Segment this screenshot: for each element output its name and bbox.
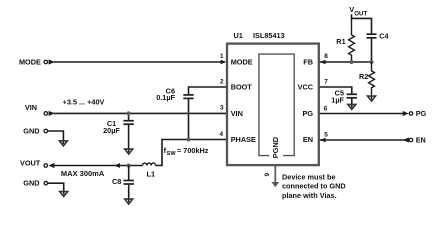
wire BOOT to C6	[189, 87, 227, 94]
svg-text:EN: EN	[303, 135, 313, 144]
svg-text:1µF: 1µF	[331, 95, 344, 104]
note text	[282, 172, 346, 200]
wire GND lower	[48, 183, 64, 194]
svg-text:3: 3	[220, 105, 224, 112]
svg-text:VOUT: VOUT	[20, 159, 41, 168]
resistor R1	[349, 18, 355, 62]
svg-text:R1: R1	[336, 37, 345, 46]
svg-text:VCC: VCC	[298, 83, 314, 92]
svg-text:EN: EN	[416, 136, 426, 145]
capacitor C6	[183, 95, 193, 140]
svg-text:Device must be: Device must be	[282, 172, 336, 181]
wire FB line	[320, 61, 372, 63]
terminal VOUT	[20, 159, 54, 169]
node R1/FB junction	[349, 60, 353, 64]
node C6/PHASE junction	[186, 137, 190, 141]
op-amp U1 ISL85413 outer box	[227, 44, 319, 166]
svg-text:MODE: MODE	[231, 58, 253, 67]
svg-text:U1: U1	[234, 31, 243, 40]
wire L1 to PHASE	[156, 140, 227, 166]
terminal VIN	[25, 103, 55, 116]
svg-text:GND: GND	[23, 127, 39, 136]
U1 inner box	[259, 54, 294, 156]
capacitor C8	[124, 166, 134, 203]
ground symbol C8	[125, 199, 133, 204]
ground symbol upper	[59, 141, 67, 146]
wire GND upper	[48, 131, 63, 144]
ground symbol R2	[368, 96, 376, 101]
label fSW = 700kHz	[164, 146, 209, 157]
inductor L1	[143, 163, 156, 166]
capacitor C5	[347, 94, 357, 107]
svg-text:VIN: VIN	[25, 103, 37, 112]
node VOUT/C8/L1 junction	[127, 163, 131, 167]
svg-text:9: 9	[264, 173, 271, 177]
wire VOUT line	[54, 165, 143, 167]
svg-text:2: 2	[220, 78, 224, 85]
terminal GND upper	[23, 127, 47, 136]
svg-text:8: 8	[324, 53, 328, 60]
svg-text:6: 6	[324, 105, 328, 112]
wire MODE to pin 1	[54, 61, 222, 63]
svg-text:MODE: MODE	[19, 58, 41, 67]
svg-text:OUT: OUT	[354, 10, 367, 17]
svg-text:connected to GND: connected to GND	[282, 182, 346, 191]
svg-text:PG: PG	[302, 109, 313, 118]
svg-text:PGND: PGND	[271, 136, 280, 158]
svg-text:1: 1	[220, 53, 224, 60]
svg-text:0.1µF: 0.1µF	[156, 93, 175, 102]
ground symbol C5	[348, 104, 356, 109]
svg-text:20µF: 20µF	[103, 126, 120, 135]
svg-text:PHASE: PHASE	[231, 135, 256, 144]
arrowhead into EN	[320, 138, 326, 143]
ground symbol C1	[125, 149, 133, 154]
node C1/VIN junction	[127, 111, 131, 115]
arrowhead into FB	[320, 60, 326, 65]
svg-text:VIN: VIN	[231, 109, 243, 118]
terminal MODE	[19, 58, 55, 67]
svg-text:R2: R2	[359, 72, 368, 81]
svg-text:BOOT: BOOT	[231, 83, 253, 92]
svg-text:plane with Vias.: plane with Vias.	[282, 191, 337, 200]
arrow on VOUT line	[114, 163, 120, 168]
wire VOUT stub	[352, 14, 372, 33]
node C4/R2 junction	[369, 60, 373, 64]
svg-text:SW: SW	[167, 151, 177, 157]
terminal PG	[403, 109, 427, 118]
terminal EN	[403, 136, 426, 145]
svg-text:C8: C8	[112, 177, 121, 186]
wire VCC to C5	[320, 87, 352, 94]
svg-text:C4: C4	[379, 32, 389, 41]
ground symbol lower	[60, 192, 68, 197]
svg-text:MAX 300mA: MAX 300mA	[61, 169, 105, 178]
arrowhead into pin 1	[221, 60, 227, 65]
wire PG line	[320, 113, 403, 115]
svg-text:4: 4	[219, 131, 223, 138]
capacitor C1	[123, 113, 133, 152]
svg-text:GND: GND	[23, 179, 39, 188]
svg-text:= 700kHz: = 700kHz	[177, 146, 209, 155]
pin 9 arrow	[271, 182, 279, 187]
svg-text:FB: FB	[303, 58, 313, 67]
svg-text:L1: L1	[147, 170, 156, 179]
resistor R2	[369, 62, 375, 99]
wire VIN to pin 3	[54, 112, 227, 114]
pin 9 stub	[274, 166, 276, 182]
capacitor C4	[367, 34, 377, 62]
net VOUT top label	[349, 5, 367, 17]
svg-text:7: 7	[324, 78, 328, 85]
svg-text:5: 5	[324, 132, 328, 139]
svg-text:+3.5 ... +40V: +3.5 ... +40V	[63, 98, 105, 107]
svg-text:PG: PG	[416, 109, 427, 118]
wire EN line	[320, 139, 409, 141]
terminal GND lower	[23, 179, 47, 188]
svg-text:ISL85413: ISL85413	[253, 31, 285, 40]
